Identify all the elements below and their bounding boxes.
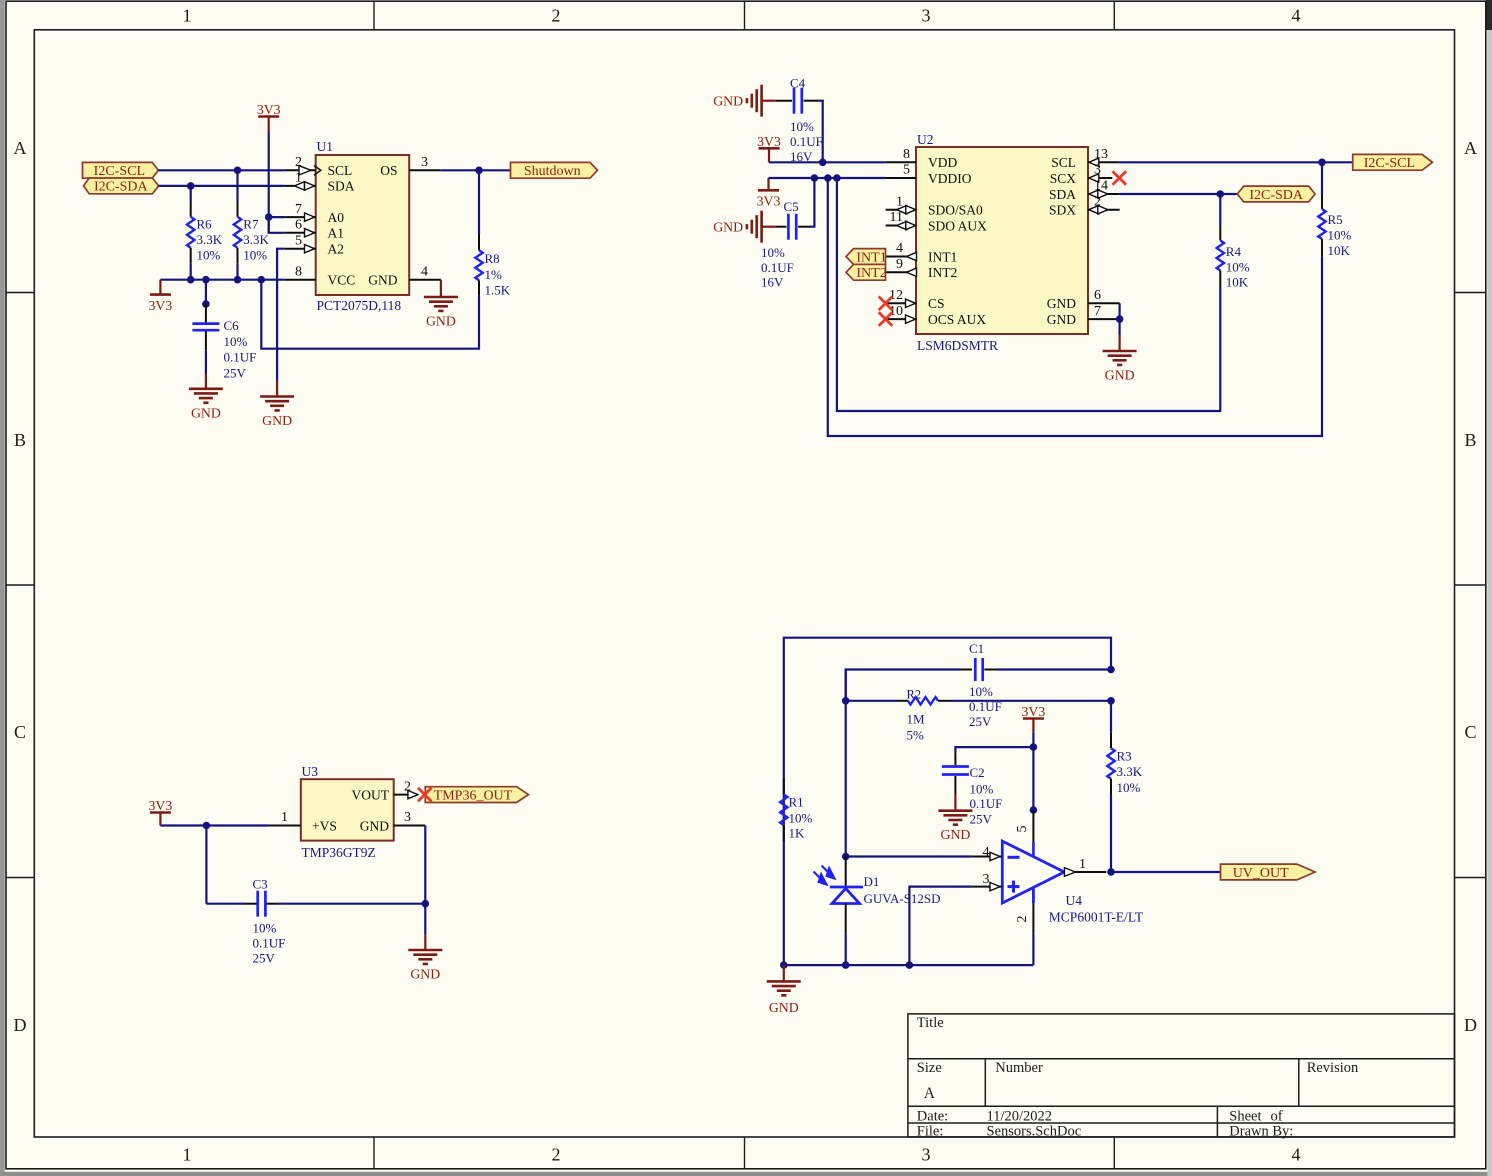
- no-ERC cross on OCS AUX: [879, 312, 893, 326]
- ground GND under A2: [260, 395, 294, 398]
- wire feedback top (output to R1 top): [784, 638, 1111, 965]
- port UV_OUT: [1221, 864, 1316, 880]
- svg-text:SDX: SDX: [1049, 203, 1076, 218]
- svg-text:1.5K: 1.5K: [485, 283, 511, 298]
- svg-text:Title: Title: [917, 1015, 944, 1031]
- svg-text:8: 8: [295, 264, 302, 279]
- resistor R8 1% 1.5K: [478, 170, 480, 234]
- svg-text:SCL: SCL: [1051, 155, 1076, 170]
- junction rail/D1: [842, 961, 850, 969]
- svg-text:A2: A2: [328, 242, 345, 257]
- resistor R5 10K 10%: [1321, 162, 1323, 194]
- wire 3V3 to op-amp pin 5: [1032, 733, 1034, 810]
- wire C1 row: [846, 670, 960, 701]
- title block frame: [908, 1014, 1455, 1137]
- svg-text:File:: File:: [917, 1123, 944, 1139]
- svg-text:A: A: [924, 1085, 936, 1102]
- wire 3V3 down to A0/A1: [268, 170, 270, 233]
- svg-text:0.1UF: 0.1UF: [253, 936, 286, 951]
- svg-text:4: 4: [421, 264, 428, 279]
- svg-text:8: 8: [903, 147, 910, 162]
- svg-text:1: 1: [183, 1145, 192, 1165]
- junction C5/VDDIO: [811, 174, 819, 182]
- svg-text:10%: 10%: [243, 248, 267, 263]
- svg-text:5: 5: [903, 163, 910, 178]
- svg-text:TMP36_OUT: TMP36_OUT: [434, 788, 513, 803]
- capacitor C5 0.1UF 16V: [762, 226, 776, 228]
- ground GND left of C4: [760, 85, 763, 117]
- resistor R2 1M 5%: [908, 697, 938, 704]
- svg-text:2: 2: [552, 6, 561, 26]
- svg-text:5: 5: [295, 233, 302, 248]
- svg-text:D: D: [1464, 1015, 1477, 1035]
- junction C4/VDD: [819, 159, 827, 167]
- svg-text:3: 3: [404, 810, 411, 825]
- svg-text:R1: R1: [789, 795, 804, 810]
- svg-text:A0: A0: [328, 210, 345, 225]
- wire SDA to I2C-SDA port: [1120, 193, 1238, 195]
- svg-text:C: C: [1464, 722, 1476, 742]
- svg-text:0.1UF: 0.1UF: [761, 260, 794, 275]
- svg-text:Sheet: Sheet: [1229, 1109, 1261, 1125]
- junction R2/right vertical: [1107, 697, 1115, 705]
- svg-text:4: 4: [1292, 6, 1301, 26]
- svg-text:5%: 5%: [907, 727, 925, 742]
- svg-text:2: 2: [1015, 916, 1030, 923]
- svg-text:1%: 1%: [485, 267, 503, 282]
- svg-text:SDA: SDA: [328, 179, 355, 194]
- svg-text:10K: 10K: [1328, 243, 1351, 258]
- svg-text:R5: R5: [1328, 212, 1343, 227]
- svg-text:C5: C5: [784, 199, 799, 214]
- svg-text:U1: U1: [317, 139, 334, 154]
- svg-text:GND: GND: [262, 413, 292, 428]
- wire C2 branch: [955, 747, 1033, 752]
- svg-text:C6: C6: [224, 318, 240, 333]
- U4 pin 4 inverting: [971, 856, 1002, 858]
- svg-text:10%: 10%: [253, 921, 277, 936]
- op-amp minus symbol: [1008, 856, 1020, 859]
- wire I2C-SCL to U1 SCL pin: [158, 169, 284, 171]
- junction C6/rail: [202, 276, 210, 284]
- svg-text:6: 6: [1094, 288, 1101, 303]
- junction op-amp pin5 wire: [1030, 806, 1038, 814]
- ground GND under U3: [408, 949, 442, 952]
- svg-text:U4: U4: [1066, 893, 1083, 908]
- svg-text:MCP6001T-E/LT: MCP6001T-E/LT: [1049, 910, 1144, 925]
- wire C3 rail left segment: [206, 903, 246, 905]
- svg-text:GND: GND: [426, 314, 456, 329]
- junction C3/ground wire: [422, 900, 430, 908]
- U2 pin 13 SCL: [1088, 161, 1120, 163]
- U1 pin 5 A2: [285, 248, 316, 250]
- junction pullup-return SCL/VDDIO: [833, 174, 841, 182]
- zone dividers left: [6, 292, 34, 294]
- resistor R4 10K 10%: [1219, 194, 1221, 226]
- power 3V3 above op-amp: [1032, 719, 1034, 733]
- U2 pin 1 SDO/SA0: [886, 209, 916, 211]
- U2 pin 6 GND: [1088, 302, 1120, 304]
- svg-text:PCT2075D,118: PCT2075D,118: [317, 298, 402, 313]
- photodiode D1 GUVA-S12SD: [845, 857, 847, 886]
- svg-text:10%: 10%: [761, 245, 785, 260]
- svg-text:SDO AUX: SDO AUX: [928, 218, 987, 233]
- U4 pin 3 non-inverting: [971, 886, 1002, 888]
- junction +VS/C3 branch: [203, 822, 211, 830]
- svg-text:C4: C4: [790, 76, 806, 91]
- svg-text:C: C: [14, 722, 26, 742]
- power 3V3 for VDD: [768, 148, 770, 162]
- svg-text:OS: OS: [380, 163, 397, 178]
- svg-text:INT1: INT1: [928, 249, 957, 264]
- right scrollbar top block: [1486, 0, 1492, 30]
- svg-text:VOUT: VOUT: [352, 788, 390, 803]
- port I2C-SDA right: [1237, 186, 1315, 202]
- svg-text:10%: 10%: [1117, 780, 1141, 795]
- svg-text:R8: R8: [485, 251, 500, 266]
- resistor R7 3.3K 10%: [236, 170, 238, 201]
- wire U2 GND pins to ground: [1118, 303, 1120, 335]
- component U1 body: [316, 155, 410, 295]
- wire 3V3 to +VS: [160, 824, 269, 826]
- junction R8-return/rail: [258, 276, 266, 284]
- svg-text:5: 5: [1015, 826, 1030, 833]
- power 3V3 left of rail: [159, 280, 161, 295]
- svg-text:3.3K: 3.3K: [1117, 764, 1143, 779]
- svg-text:GND: GND: [1047, 296, 1076, 311]
- svg-text:GND: GND: [360, 818, 389, 833]
- svg-text:3V3: 3V3: [1022, 704, 1046, 719]
- svg-text:SDA: SDA: [1049, 187, 1076, 202]
- capacitor C3 0.1UF 25V: [256, 891, 259, 917]
- svg-text:3: 3: [922, 1145, 931, 1165]
- U2 pin 14 SDA: [1088, 193, 1120, 195]
- port I2C-SCL left: [83, 162, 159, 178]
- svg-text:25V: 25V: [253, 950, 276, 965]
- op-amp plus symbol: [1008, 885, 1020, 888]
- svg-text:D1: D1: [864, 874, 880, 889]
- zone dividers bottom: [373, 1137, 375, 1169]
- svg-text:Shutdown: Shutdown: [524, 164, 581, 179]
- U3 pin 3 GND: [394, 825, 426, 827]
- svg-text:GND: GND: [410, 967, 440, 982]
- svg-text:B: B: [1464, 430, 1476, 450]
- zone dividers top: [373, 1, 375, 29]
- U1 pin 6 A1: [285, 232, 316, 234]
- wire VDDIO to R4 bottom loop: [837, 178, 1220, 411]
- svg-text:25V: 25V: [224, 365, 247, 380]
- resistor R3 3.3K 10%: [1110, 701, 1112, 733]
- wire VCC rail: [160, 279, 284, 281]
- U2 pin 11 SDO AUX: [886, 225, 916, 227]
- svg-text:R7: R7: [243, 216, 259, 231]
- U2 pin 7 GND: [1088, 318, 1120, 320]
- port I2C-SDA left: [84, 178, 159, 194]
- U1 pin 2 SCL: [285, 169, 316, 171]
- no-ERC cross on SCX: [1113, 171, 1127, 185]
- svg-text:3V3: 3V3: [149, 298, 173, 313]
- capacitor C6 0.1UF: [205, 280, 207, 304]
- svg-text:3V3: 3V3: [757, 134, 781, 149]
- svg-text:1M: 1M: [907, 711, 926, 726]
- junction pullup-return SDA/VDDIO: [824, 174, 832, 182]
- svg-text:6: 6: [295, 218, 302, 233]
- svg-text:U3: U3: [302, 764, 319, 779]
- wire I2C-SDA to U1 SDA pin: [159, 185, 285, 187]
- svg-text:I2C-SCL: I2C-SCL: [1364, 156, 1415, 171]
- wire down to C3 rail: [205, 826, 207, 904]
- svg-text:9: 9: [896, 257, 903, 272]
- port TMP36_OUT: [425, 787, 528, 803]
- svg-text:GND: GND: [940, 827, 970, 842]
- wire output to UV_OUT port: [1111, 871, 1221, 873]
- svg-text:R3: R3: [1117, 748, 1132, 763]
- wire pin3 down to ground: [424, 826, 426, 935]
- ground GND under U2: [1103, 350, 1137, 353]
- svg-text:GND: GND: [1105, 368, 1135, 383]
- svg-text:0.1UF: 0.1UF: [970, 796, 1003, 811]
- U3 pin 2 VOUT: [394, 794, 418, 796]
- wire R2 row: [846, 700, 896, 702]
- junction I2C-SDA / R6: [187, 182, 195, 190]
- svg-text:11/20/2022: 11/20/2022: [987, 1109, 1053, 1125]
- port INT1: [846, 249, 886, 265]
- svg-text:A: A: [14, 138, 27, 158]
- svg-text:10%: 10%: [1226, 259, 1250, 274]
- wire VDD rail: [769, 161, 886, 163]
- svg-text:Number: Number: [995, 1060, 1043, 1076]
- svg-text:10: 10: [889, 304, 903, 319]
- svg-text:25V: 25V: [970, 811, 993, 826]
- U2 pin 12 CS: [886, 302, 916, 304]
- svg-text:0.1UF: 0.1UF: [790, 134, 823, 149]
- no-ERC cross on VOUT: [418, 788, 432, 802]
- capacitor C1 0.1UF 25V: [974, 658, 977, 681]
- svg-text:3.3K: 3.3K: [197, 232, 223, 247]
- wire ground rail under op-amp: [784, 964, 1034, 966]
- port INT2: [846, 264, 886, 280]
- svg-text:2: 2: [552, 1145, 561, 1165]
- svg-text:10%: 10%: [969, 684, 993, 699]
- svg-text:7: 7: [1094, 304, 1101, 319]
- svg-text:B: B: [14, 430, 26, 450]
- svg-text:VDDIO: VDDIO: [928, 171, 972, 186]
- svg-text:+VS: +VS: [312, 818, 337, 833]
- svg-text:D: D: [14, 1015, 27, 1035]
- U2 pin 8 VDD: [886, 161, 916, 163]
- svg-text:3.3K: 3.3K: [243, 232, 269, 247]
- U1 pin 4 GND: [409, 279, 441, 281]
- U2 pin 9 INT2: [886, 271, 916, 273]
- ground GND under C6: [189, 387, 223, 390]
- U1 pin 8 VCC: [285, 279, 316, 281]
- junction SDA/R4: [1217, 190, 1225, 198]
- svg-text:UV_OUT: UV_OUT: [1233, 866, 1289, 881]
- svg-text:0.1UF: 0.1UF: [224, 350, 257, 365]
- junction 3V3/A0: [265, 213, 273, 221]
- right scrollbar strip: [1487, 0, 1492, 1176]
- svg-text:Date:: Date:: [917, 1109, 948, 1125]
- svg-text:3V3: 3V3: [149, 798, 173, 813]
- U2 pin 4 INT1: [886, 256, 916, 258]
- power 3V3 left of U3: [159, 813, 161, 826]
- junction C1/right vertical: [1107, 666, 1115, 674]
- U1 pin 3 OS: [409, 169, 440, 171]
- resistor R1 10% 1K: [783, 779, 785, 795]
- svg-text:4: 4: [1292, 1145, 1301, 1165]
- svg-text:I2C-SDA: I2C-SDA: [94, 180, 149, 195]
- svg-text:GND: GND: [368, 273, 397, 288]
- svg-text:U2: U2: [917, 132, 934, 147]
- svg-text:10%: 10%: [790, 119, 814, 134]
- power 3V3 for VDDIO: [767, 178, 769, 190]
- svg-text:Sensors.SchDoc: Sensors.SchDoc: [987, 1123, 1082, 1139]
- svg-text:1: 1: [1079, 857, 1086, 872]
- svg-text:C1: C1: [969, 641, 984, 656]
- wire OS to Shutdown port: [440, 169, 510, 171]
- svg-text:SDO/SA0: SDO/SA0: [928, 203, 983, 218]
- ground GND at U1 pin 4: [440, 280, 442, 297]
- svg-text:10%: 10%: [224, 334, 248, 349]
- svg-text:10%: 10%: [970, 781, 994, 796]
- svg-text:7: 7: [295, 202, 302, 217]
- svg-text:OCS AUX: OCS AUX: [928, 312, 986, 327]
- junction output/R3: [1107, 868, 1115, 876]
- junction GND pin7: [1116, 315, 1124, 323]
- svg-text:GND: GND: [713, 94, 743, 109]
- component U2 body: [916, 147, 1088, 334]
- bottom window edge strip: [0, 1172, 1492, 1176]
- svg-text:I2C-SCL: I2C-SCL: [94, 164, 145, 179]
- svg-text:R6: R6: [197, 216, 213, 231]
- svg-text:Revision: Revision: [1307, 1060, 1359, 1076]
- svg-text:3: 3: [922, 6, 931, 26]
- resistor R6 3.3K 10%: [190, 186, 192, 202]
- wire C5 to VDDIO rail: [810, 178, 814, 227]
- wire VDDIO to R5 bottom loop: [828, 178, 1322, 436]
- junction minus input: [842, 853, 850, 861]
- svg-text:12: 12: [889, 288, 903, 303]
- left window edge strip: [0, 0, 5, 1176]
- svg-text:Drawn By:: Drawn By:: [1229, 1123, 1293, 1139]
- light arrows into D1: [814, 866, 835, 885]
- svg-text:R4: R4: [1226, 244, 1242, 259]
- svg-text:VDD: VDD: [928, 155, 957, 170]
- svg-text:25V: 25V: [969, 714, 992, 729]
- U2 pin 10 OCS AUX: [886, 318, 916, 320]
- svg-text:3V3: 3V3: [757, 194, 781, 209]
- junction R6/rail: [187, 276, 195, 284]
- U4 pin 2 wire: [1032, 889, 1035, 904]
- wire C4 to VDD rail: [819, 101, 823, 163]
- svg-text:10%: 10%: [789, 811, 813, 826]
- junction OS/R8: [475, 167, 483, 175]
- ground GND under rail: [783, 965, 785, 981]
- svg-text:C2: C2: [970, 765, 985, 780]
- svg-text:10K: 10K: [1226, 274, 1249, 289]
- svg-text:1: 1: [281, 810, 288, 825]
- svg-text:SCL: SCL: [328, 163, 353, 178]
- U3 pin 1 +VS: [269, 825, 301, 827]
- junction R2/left vertical: [842, 697, 850, 705]
- svg-text:10%: 10%: [1328, 228, 1352, 243]
- svg-text:I2C-SDA: I2C-SDA: [1249, 188, 1304, 203]
- svg-text:TMP36GT9Z: TMP36GT9Z: [302, 845, 376, 860]
- op-amp U4 triangle: [1002, 841, 1064, 903]
- svg-text:C3: C3: [253, 877, 268, 892]
- svg-text:CS: CS: [928, 296, 945, 311]
- power 3V3 above U1: [268, 132, 270, 171]
- U4 pin 1 output: [1064, 868, 1075, 877]
- wire VDDIO rail: [769, 177, 886, 179]
- junction R7/rail: [234, 276, 242, 284]
- junction rail/R1: [780, 961, 788, 969]
- U1 pin 1 SDA: [285, 185, 316, 187]
- U1 pin 7 A0: [285, 216, 316, 218]
- svg-text:4: 4: [983, 845, 990, 860]
- svg-text:10%: 10%: [197, 248, 221, 263]
- wire A0 from 3V3 junction: [269, 216, 285, 218]
- wire A2 to ground: [277, 249, 285, 381]
- svg-text:of: of: [1271, 1109, 1283, 1125]
- svg-text:R2: R2: [907, 688, 922, 702]
- component U3 body: [301, 779, 394, 840]
- junction I2C-SCL / R7: [234, 167, 242, 175]
- svg-text:A1: A1: [328, 226, 345, 241]
- svg-text:SCX: SCX: [1050, 171, 1077, 186]
- svg-text:LSM6DSMTR: LSM6DSMTR: [917, 338, 998, 353]
- svg-text:3: 3: [983, 872, 990, 887]
- wire SCL to I2C-SCL port: [1120, 161, 1353, 163]
- svg-text:INT2: INT2: [928, 265, 957, 280]
- wire C3 rail right segment: [277, 903, 425, 905]
- svg-text:1K: 1K: [789, 826, 806, 841]
- no-ERC cross on CS: [879, 297, 893, 311]
- wire R8 return to VCC rail: [261, 280, 479, 349]
- junction rail/plus wire: [906, 961, 914, 969]
- wire minus input to op-amp: [846, 855, 972, 857]
- svg-text:1: 1: [183, 6, 192, 26]
- port I2C-SCL right: [1353, 154, 1433, 170]
- svg-text:GND: GND: [1047, 312, 1076, 327]
- junction 3V3/C2: [1030, 743, 1038, 751]
- svg-text:16V: 16V: [761, 274, 784, 289]
- svg-text:GND: GND: [769, 1000, 799, 1015]
- U2 pin 2 SDX: [1088, 209, 1120, 211]
- svg-text:A: A: [1464, 138, 1477, 158]
- U2 pin 5 VDDIO: [886, 177, 916, 179]
- svg-text:VCC: VCC: [328, 273, 356, 288]
- ground GND under C2: [938, 809, 972, 812]
- svg-text:GND: GND: [713, 220, 743, 235]
- wire plus input from ground rail: [909, 887, 971, 966]
- capacitor C4 0.1UF 16V: [762, 100, 776, 102]
- U2 pin 3 SCX: [1088, 177, 1112, 179]
- svg-text:GND: GND: [191, 405, 221, 420]
- junction SCL/R5: [1318, 159, 1326, 167]
- zone dividers right: [1455, 292, 1486, 294]
- svg-text:Size: Size: [917, 1060, 942, 1076]
- svg-text:4: 4: [896, 241, 903, 256]
- capacitor C2 0.1UF 25V: [942, 765, 969, 768]
- svg-text:3: 3: [421, 155, 428, 170]
- svg-text:INT1: INT1: [856, 250, 886, 265]
- port Shutdown: [511, 162, 598, 178]
- svg-text:INT2: INT2: [856, 266, 886, 281]
- wire left vertical (C1/R2 to minus input and D1): [845, 670, 847, 701]
- ground GND left of C5: [760, 211, 763, 243]
- svg-text:GUVA-S12SD: GUVA-S12SD: [864, 891, 941, 906]
